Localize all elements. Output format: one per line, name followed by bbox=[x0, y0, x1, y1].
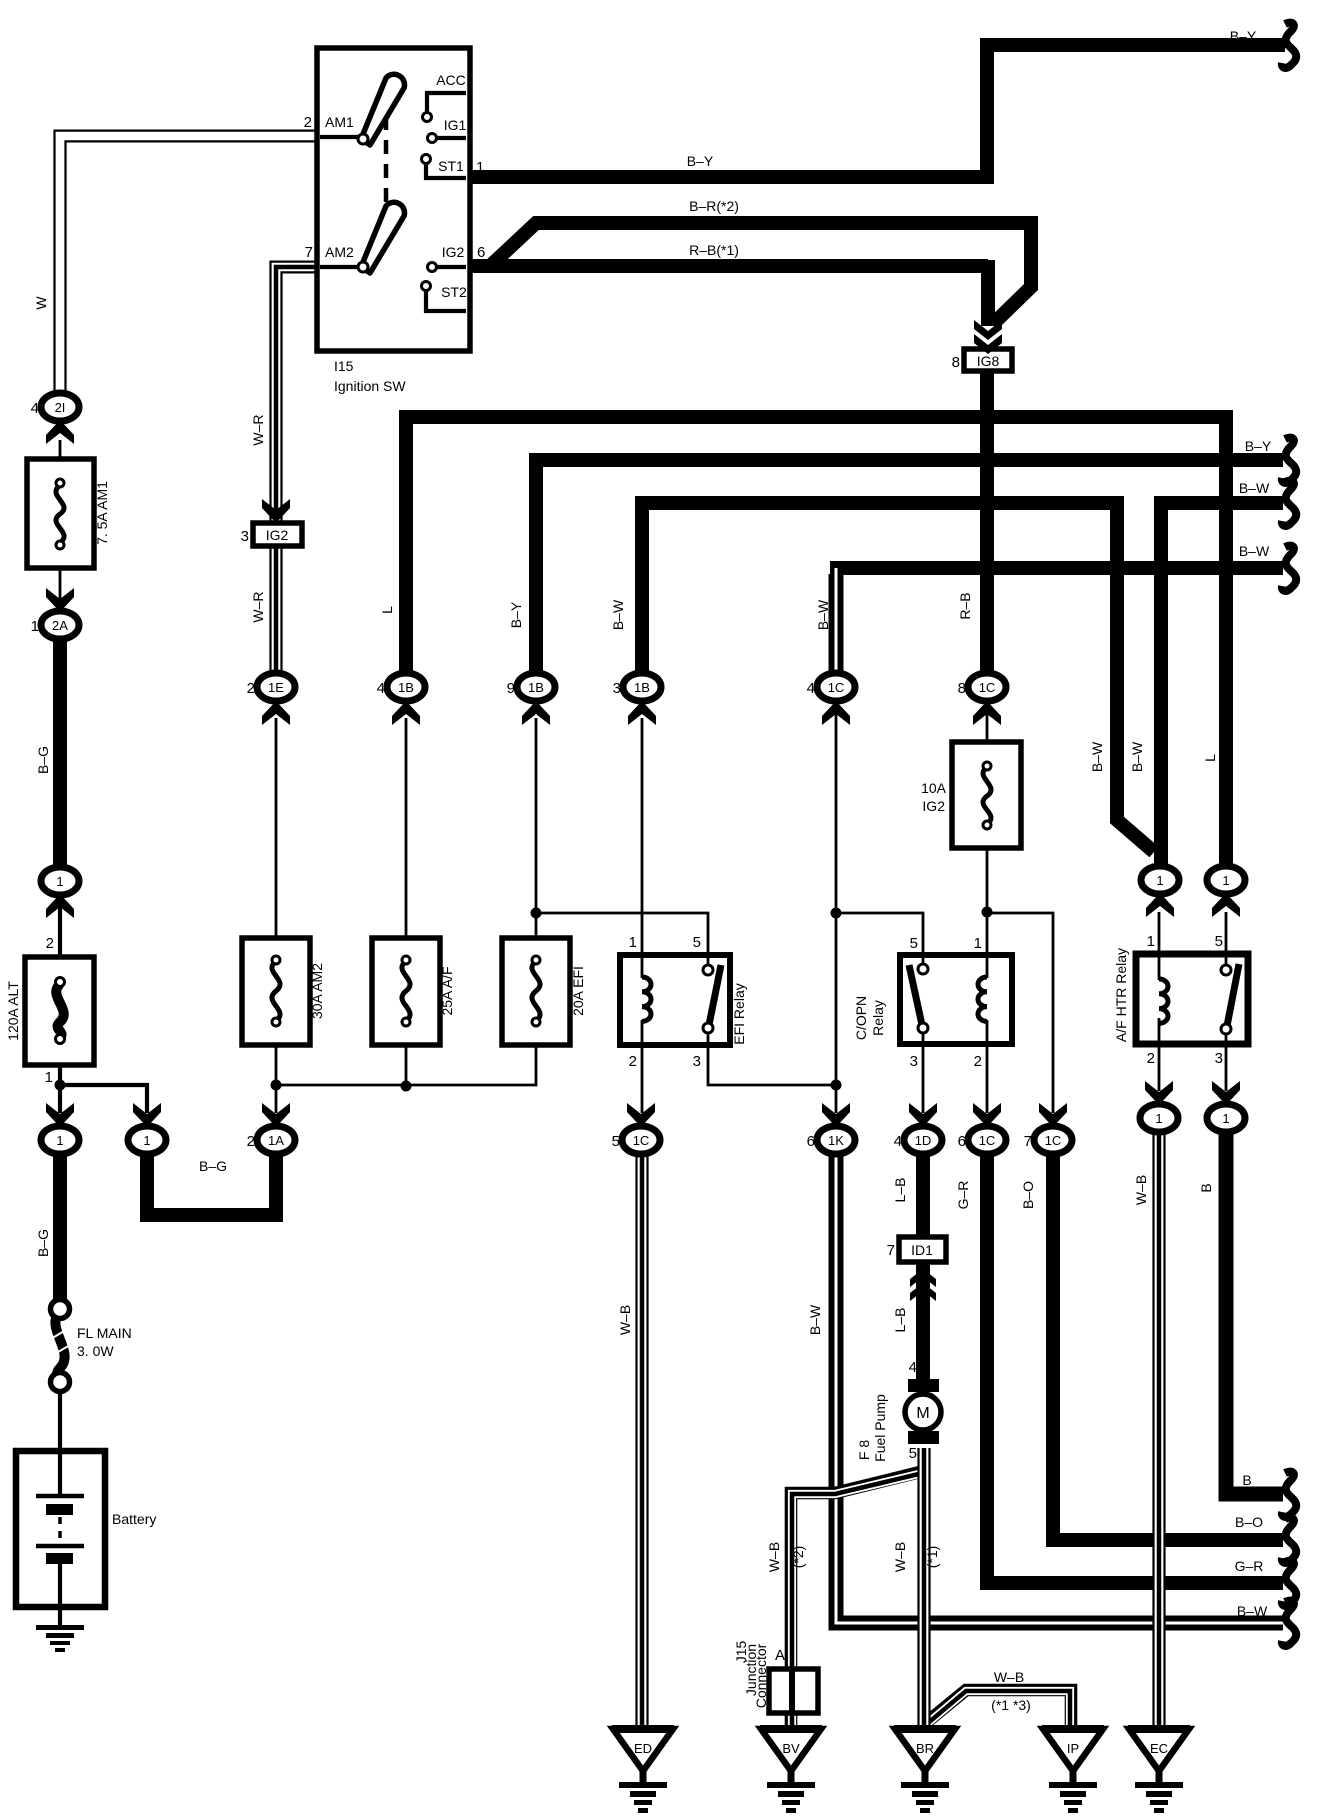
svg-text:B–G: B–G bbox=[35, 746, 51, 774]
thin wire 8(1C) to fuse 10A IG2 bbox=[986, 700, 989, 742]
svg-text:4: 4 bbox=[377, 680, 385, 697]
svg-text:L–B: L–B bbox=[892, 1308, 908, 1333]
svg-text:A/F HTR Relay: A/F HTR Relay bbox=[1113, 948, 1129, 1042]
connector 1 at (1226,1118) bbox=[1207, 1081, 1245, 1132]
wire W-B from A/F HTR pin2 connector to ground EC bbox=[1154, 1130, 1165, 1727]
page connector curl B-W bottom bbox=[1282, 1601, 1296, 1646]
svg-text:5: 5 bbox=[910, 935, 918, 952]
connector 7 1C at (1053,1140) bbox=[1024, 1103, 1072, 1154]
fuel pump F8 motor bbox=[856, 1359, 941, 1462]
double chevron arrow into ID1 bbox=[910, 1269, 936, 1301]
junction dot below 25A A/F bbox=[401, 1081, 412, 1092]
wire B-Y from ST1 pin 1 to top-right page connector bbox=[468, 45, 1285, 184]
svg-text:B–W: B–W bbox=[807, 1304, 823, 1335]
svg-text:7: 7 bbox=[305, 244, 313, 261]
svg-text:1: 1 bbox=[56, 874, 63, 889]
svg-text:1: 1 bbox=[45, 1069, 53, 1086]
page connector curl G-R bbox=[1282, 1561, 1296, 1606]
svg-text:2: 2 bbox=[46, 935, 54, 952]
double chevron arrow into IG8 bbox=[974, 320, 1002, 354]
svg-text:1: 1 bbox=[143, 1133, 150, 1148]
svg-text:3: 3 bbox=[1215, 1050, 1223, 1067]
svg-text:10A: 10A bbox=[921, 780, 947, 796]
svg-text:1A: 1A bbox=[268, 1133, 284, 1148]
page connector curl B-O bbox=[1282, 1518, 1296, 1563]
wire L bus from 4(1B) to A/F HTR relay pin5 column bbox=[406, 417, 1226, 867]
wire W-B from 5(1C) to ground ED bbox=[637, 1152, 648, 1727]
svg-text:3: 3 bbox=[613, 680, 621, 697]
svg-text:1: 1 bbox=[1155, 1111, 1162, 1126]
wire W-B(*1 *3) branch to ground IP bbox=[927, 1690, 1071, 1727]
svg-text:B–W: B–W bbox=[1237, 1603, 1268, 1619]
svg-text:W–B: W–B bbox=[1133, 1175, 1149, 1205]
svg-text:W: W bbox=[33, 296, 49, 310]
AM1 pivot contact bbox=[358, 134, 368, 144]
connector 4 1C at (836,687) bbox=[807, 673, 855, 725]
thin bus wire B-Y tap to EFI relay pin 5 bbox=[536, 913, 708, 966]
wire B-W striped vertical at connector 4(1C) bbox=[829, 568, 844, 672]
svg-text:W–B: W–B bbox=[766, 1542, 782, 1572]
thin wire 30A AM2 fuse to 2(1A) bbox=[275, 1042, 278, 1113]
svg-text:2: 2 bbox=[629, 1053, 637, 1070]
svg-text:ED: ED bbox=[634, 1741, 652, 1756]
wire B-W striped from 6(1K) to right page connector bbox=[836, 1150, 1283, 1623]
svg-text:IG8: IG8 bbox=[977, 353, 1000, 369]
wire W from battery node to AM1 (hollow double line) bbox=[55, 131, 318, 401]
connector 4 2I at (60,407) bbox=[31, 393, 79, 444]
connector 1 at (60,881) bbox=[41, 867, 79, 918]
svg-text:1B: 1B bbox=[398, 680, 414, 695]
svg-text:2: 2 bbox=[974, 1053, 982, 1070]
wire B from A/F HTR pin3 connector to right page connector bbox=[1226, 1128, 1283, 1494]
wire L-B from 4(1D) to ID1 bbox=[916, 1150, 930, 1240]
svg-text:A: A bbox=[775, 1647, 785, 1664]
svg-text:1: 1 bbox=[629, 934, 637, 951]
thin wire A/F HTR pin 2 output bbox=[1158, 1018, 1161, 1091]
svg-text:EFI Relay: EFI Relay bbox=[731, 983, 747, 1044]
svg-text:IP: IP bbox=[1067, 1741, 1079, 1756]
svg-text:5: 5 bbox=[1215, 933, 1223, 950]
svg-text:Relay: Relay bbox=[870, 1000, 886, 1036]
ground BV bbox=[760, 1725, 822, 1813]
svg-text:7: 7 bbox=[1024, 1133, 1032, 1150]
svg-text:G–R: G–R bbox=[1235, 1558, 1264, 1574]
connector 1 at (1226,880) bbox=[1207, 866, 1245, 917]
fuse 25A A/F bbox=[372, 938, 455, 1045]
connector 6 1C at (987,1140) bbox=[958, 1103, 1006, 1154]
thin wire A/F HTR pin 1 feed bbox=[1158, 912, 1161, 980]
svg-text:1C: 1C bbox=[979, 1133, 996, 1148]
svg-text:1K: 1K bbox=[828, 1133, 844, 1148]
AM2 contact line bbox=[320, 265, 358, 269]
ground EC bbox=[1128, 1725, 1190, 1813]
ST2 contact hook bbox=[426, 291, 466, 311]
svg-text:25A A/F: 25A A/F bbox=[439, 966, 455, 1015]
svg-text:BR: BR bbox=[916, 1741, 934, 1756]
svg-text:5: 5 bbox=[693, 934, 701, 951]
svg-text:(*1 *3): (*1 *3) bbox=[991, 1697, 1031, 1713]
svg-text:B–Y: B–Y bbox=[1230, 28, 1257, 44]
svg-text:2I: 2I bbox=[55, 400, 66, 415]
AM1 wiper arm bbox=[361, 74, 404, 145]
thin wire 4(1C) down to relay feed bus bbox=[835, 700, 838, 1113]
junction dot on 6(1K) column at EFI relay pin3 bus bbox=[831, 1080, 842, 1091]
svg-text:2: 2 bbox=[247, 1133, 255, 1150]
connector box IG8 bbox=[952, 349, 1012, 371]
svg-text:W–B: W–B bbox=[617, 1305, 633, 1335]
fuse 7.5A AM1 bbox=[27, 459, 110, 568]
connector box ID1 bbox=[887, 1237, 946, 1262]
svg-text:B–O: B–O bbox=[1020, 1181, 1036, 1209]
thin wire FL MAIN to battery bbox=[58, 1390, 62, 1456]
wire W-B(*1) fuel pump pin 5 to ground BR bbox=[919, 1448, 930, 1727]
svg-text:L: L bbox=[1202, 754, 1218, 762]
svg-text:5: 5 bbox=[909, 1445, 917, 1462]
svg-text:8: 8 bbox=[958, 680, 966, 697]
svg-text:IG2: IG2 bbox=[266, 527, 289, 543]
connector 1 at (1159,1118) bbox=[1140, 1081, 1178, 1132]
svg-text:3. 0W: 3. 0W bbox=[77, 1343, 114, 1359]
A/F HTR Relay box bbox=[1113, 933, 1248, 1067]
thin wire 9(1B) to fuse 20A EFI bbox=[535, 718, 538, 938]
ground ED bbox=[612, 1725, 674, 1813]
wire W-B(*2) fuel pump branch to J15 and ground BV bbox=[791, 1471, 923, 1727]
svg-text:Battery: Battery bbox=[112, 1511, 156, 1527]
wire B-W bus from 3(1B) jog to A/F HTR relay pin1 bbox=[642, 503, 1154, 852]
thin bus wire 10A IG2 output to 7(1C) column bbox=[987, 913, 1053, 1113]
svg-text:F 8: F 8 bbox=[856, 1440, 872, 1460]
svg-text:30A AM2: 30A AM2 bbox=[309, 963, 325, 1019]
wire W-R from AM2 through IG2 connector to 1E bbox=[271, 262, 318, 672]
svg-text:4: 4 bbox=[894, 1133, 902, 1150]
svg-text:1: 1 bbox=[1156, 873, 1163, 888]
svg-text:2: 2 bbox=[247, 680, 255, 697]
svg-text:W–R: W–R bbox=[250, 414, 266, 445]
svg-text:8: 8 bbox=[952, 354, 960, 371]
svg-text:B–O: B–O bbox=[1235, 1514, 1263, 1530]
svg-text:20A EFI: 20A EFI bbox=[570, 966, 586, 1016]
wire R-B(*1) from IG2 pin 6 to IG8 connector bbox=[468, 260, 988, 326]
svg-text:Fuel Pump: Fuel Pump bbox=[872, 1394, 888, 1462]
connector 4 1B at (406,687) bbox=[377, 673, 425, 725]
svg-text:2A: 2A bbox=[52, 618, 68, 633]
wire G-R from 6(1C) to right page connector bbox=[987, 1150, 1283, 1583]
thin wire 4(1B) to fuse 25A A/F bbox=[405, 718, 408, 938]
svg-text:6: 6 bbox=[958, 1133, 966, 1150]
AM2 pivot contact bbox=[358, 262, 368, 272]
svg-text:1E: 1E bbox=[268, 680, 284, 695]
connector box IG2 bbox=[241, 523, 302, 546]
connector 2 1A at (276,1140) bbox=[247, 1103, 295, 1154]
connector 1 2A at (60,625) bbox=[31, 588, 79, 639]
svg-text:B–W: B–W bbox=[610, 599, 626, 630]
svg-text:(*2): (*2) bbox=[790, 1546, 806, 1569]
svg-text:4: 4 bbox=[909, 1359, 917, 1376]
thin wire EFI relay pin 3 to 6(1K) column bbox=[708, 1032, 836, 1085]
svg-text:7. 5A AM1: 7. 5A AM1 bbox=[94, 481, 110, 545]
svg-text:IG1: IG1 bbox=[444, 117, 467, 133]
fuse 10A IG2 bbox=[921, 742, 1021, 848]
svg-text:G–R: G–R bbox=[955, 1181, 971, 1210]
thin wire 2I to fuse 7.5A AM1 bbox=[59, 440, 62, 462]
svg-text:M: M bbox=[916, 1405, 929, 1422]
svg-text:1D: 1D bbox=[915, 1133, 932, 1148]
thin wire C/OPN relay pin 3 to 4(1D) bbox=[922, 1032, 925, 1113]
page connector curl B bbox=[1282, 1472, 1296, 1517]
page connector curl B-W lower bbox=[1282, 546, 1296, 591]
svg-text:EC: EC bbox=[1150, 1741, 1168, 1756]
svg-text:B–G: B–G bbox=[199, 1158, 227, 1174]
svg-text:W–B: W–B bbox=[994, 1669, 1024, 1685]
svg-text:6: 6 bbox=[807, 1133, 815, 1150]
connector 6 1K at (836,1140) bbox=[807, 1103, 855, 1154]
ignition switch labels bbox=[304, 72, 486, 394]
fusible link FL MAIN 3.0W bbox=[49, 1300, 132, 1392]
svg-text:R–B: R–B bbox=[957, 592, 973, 619]
thin wire fuse 10A IG2 to C/OPN coil pin 1 bbox=[986, 848, 989, 978]
wire B-G from node 1 down to FL MAIN bbox=[53, 1147, 67, 1302]
svg-text:5: 5 bbox=[612, 1133, 620, 1150]
C/OPN Relay box bbox=[853, 935, 1012, 1070]
junction dot on 4(1C) column at relay bus bbox=[831, 908, 842, 919]
svg-text:B–W: B–W bbox=[1129, 741, 1145, 772]
svg-text:3: 3 bbox=[693, 1053, 701, 1070]
svg-text:B–W: B–W bbox=[1089, 741, 1105, 772]
thin wire node 1 to 120A ALT bbox=[58, 896, 62, 957]
thin wire A/F HTR pin 5 feed bbox=[1225, 912, 1228, 968]
svg-text:B–W: B–W bbox=[815, 599, 831, 630]
svg-text:B–Y: B–Y bbox=[508, 601, 524, 628]
AM2 wiper arm bbox=[361, 202, 404, 273]
svg-text:W–B: W–B bbox=[892, 1542, 908, 1572]
battery box bbox=[16, 1451, 156, 1607]
wire B-Y bus from 9(1B) to right page connector bbox=[536, 460, 1283, 680]
thin bus wire 4(1C) column to C/OPN relay pin 5 bbox=[836, 913, 923, 966]
wire B-W from right page connector to A/F HTR pin1 column bbox=[1161, 503, 1283, 867]
svg-text:I15: I15 bbox=[334, 358, 354, 374]
svg-text:BV: BV bbox=[782, 1741, 800, 1756]
svg-text:6: 6 bbox=[477, 244, 485, 261]
svg-text:(*1): (*1) bbox=[924, 1546, 940, 1569]
battery ground symbol bbox=[36, 1625, 84, 1652]
thin bus wire fuse bottoms 30A AM2 to 20A EFI bbox=[276, 1042, 536, 1085]
IG1 contact bbox=[436, 136, 466, 140]
ST1 contact hook bbox=[426, 164, 466, 178]
fuse 30A AM2 bbox=[242, 938, 325, 1045]
wire B-R(*2) from IG2 via diagonal to IG8 bbox=[489, 223, 1031, 324]
thin wire 3(1B) to EFI relay pin 1 bbox=[641, 718, 644, 978]
connector 2 1E at (276,687) bbox=[247, 673, 295, 725]
IG2 contact bbox=[436, 265, 466, 269]
wire L-B from ID1 to fuel pump pin 4 bbox=[916, 1260, 930, 1380]
svg-text:R–B(*1): R–B(*1) bbox=[689, 242, 739, 258]
junction dot at 120A ALT output bbox=[55, 1080, 66, 1091]
fuse 120A ALT bbox=[5, 935, 94, 1086]
svg-text:1C: 1C bbox=[828, 680, 845, 695]
wire B-W bus from 4(1C) to right page connector bbox=[830, 561, 1283, 575]
svg-text:IG2: IG2 bbox=[922, 798, 945, 814]
svg-text:B–Y: B–Y bbox=[687, 153, 714, 169]
thin wire 120A ALT to node 1 junction bbox=[58, 1065, 62, 1113]
thin wire junction branch to right connector 1 bbox=[60, 1085, 147, 1113]
svg-text:L: L bbox=[379, 606, 395, 614]
svg-text:IG2: IG2 bbox=[442, 244, 465, 260]
svg-text:1: 1 bbox=[1222, 873, 1229, 888]
svg-text:1: 1 bbox=[974, 935, 982, 952]
svg-text:1B: 1B bbox=[634, 680, 650, 695]
svg-text:4: 4 bbox=[807, 680, 815, 697]
svg-text:3: 3 bbox=[241, 528, 249, 545]
junction dot below 30A AM2 bbox=[271, 1080, 282, 1091]
connector 5 1C at (641,1140) bbox=[612, 1103, 660, 1154]
ground BR bbox=[894, 1725, 956, 1813]
thin wire 1E to fuse 30A AM2 bbox=[275, 718, 278, 938]
thin wire EFI relay pin 2 to 5(1C) bbox=[641, 1020, 644, 1113]
fuse 20A EFI bbox=[502, 938, 586, 1045]
thin wire 25A A/F fuse bottom bbox=[405, 1042, 408, 1086]
connector 1 at (1160,880) bbox=[1141, 866, 1179, 917]
svg-text:AM2: AM2 bbox=[325, 244, 354, 260]
junction dot on 9(1B) column bbox=[531, 908, 542, 919]
svg-text:1: 1 bbox=[1147, 933, 1155, 950]
connector 3 1B at (642,687) bbox=[613, 673, 661, 725]
svg-text:9: 9 bbox=[507, 680, 515, 697]
svg-text:1B: 1B bbox=[528, 680, 544, 695]
svg-text:AM1: AM1 bbox=[325, 114, 354, 130]
connector 1 at (60,1140) bbox=[41, 1103, 79, 1154]
svg-text:B–W: B–W bbox=[1239, 543, 1270, 559]
svg-text:B: B bbox=[1242, 1472, 1251, 1488]
connector 9 1B at (536,687) bbox=[507, 673, 555, 725]
thin wire A/F HTR pin 3 output bbox=[1225, 1033, 1228, 1091]
svg-text:1: 1 bbox=[1222, 1111, 1229, 1126]
ground IP bbox=[1042, 1725, 1104, 1813]
svg-text:FL MAIN: FL MAIN bbox=[77, 1325, 132, 1341]
page connector curl B-W upper bbox=[1282, 481, 1296, 526]
svg-text:B–W: B–W bbox=[1239, 480, 1270, 496]
ignition switch I15 box bbox=[317, 48, 470, 351]
svg-text:2: 2 bbox=[304, 114, 312, 131]
mechanical link dashed line bbox=[384, 116, 389, 210]
thin wire fuse 7.5A AM1 to 2A bbox=[59, 566, 62, 613]
svg-text:1C: 1C bbox=[979, 680, 996, 695]
svg-text:7: 7 bbox=[887, 1242, 895, 1259]
page connector curl B-Y top right bbox=[1282, 23, 1296, 68]
connector 8 1C at (987,687) bbox=[958, 673, 1006, 725]
EFI Relay box bbox=[620, 934, 747, 1070]
svg-text:1: 1 bbox=[31, 618, 39, 635]
svg-text:4: 4 bbox=[31, 400, 39, 417]
svg-text:ACC: ACC bbox=[436, 72, 466, 88]
svg-text:Connector: Connector bbox=[753, 1643, 769, 1708]
svg-text:3: 3 bbox=[910, 1053, 918, 1070]
svg-text:120A ALT: 120A ALT bbox=[5, 981, 21, 1041]
wire B-G from node 1 branch to connector 2(1A) bbox=[147, 1147, 276, 1215]
svg-text:B–G: B–G bbox=[35, 1229, 51, 1257]
svg-text:ID1: ID1 bbox=[911, 1242, 933, 1258]
svg-text:B: B bbox=[1198, 1183, 1214, 1192]
AM1 contact line bbox=[320, 135, 358, 139]
svg-text:ST2: ST2 bbox=[441, 284, 467, 300]
svg-text:1: 1 bbox=[56, 1133, 63, 1148]
svg-text:C/OPN: C/OPN bbox=[853, 996, 869, 1040]
connector 1 at (147,1140) bbox=[128, 1103, 166, 1154]
wire R-B from IG8 down to connector 8(1C) bbox=[980, 371, 994, 672]
thin wire battery to ground bbox=[58, 1560, 62, 1627]
svg-text:W–R: W–R bbox=[250, 591, 266, 622]
junction connector J15 bbox=[733, 1641, 818, 1713]
svg-text:1: 1 bbox=[476, 159, 484, 176]
svg-text:ST1: ST1 bbox=[438, 158, 464, 174]
connector 4 1D at (923,1140) bbox=[894, 1103, 942, 1154]
svg-text:B–R(*2): B–R(*2) bbox=[689, 198, 739, 214]
page connector curl B-Y bbox=[1282, 438, 1296, 483]
ACC contact hook bbox=[427, 93, 466, 112]
junction dot on 10A IG2 output bbox=[982, 907, 993, 918]
svg-text:B–Y: B–Y bbox=[1245, 438, 1272, 454]
svg-text:1C: 1C bbox=[633, 1133, 650, 1148]
arrow into IG2 connector box bbox=[262, 499, 290, 523]
wire B-G from connector 2A down to node 1 bbox=[53, 632, 67, 870]
wire B-O from 7(1C) to right page connector bbox=[1053, 1150, 1283, 1540]
svg-text:2: 2 bbox=[1147, 1050, 1155, 1067]
svg-text:Ignition SW: Ignition SW bbox=[334, 378, 406, 394]
thin wire C/OPN relay pin 2 to 6(1C) bbox=[986, 1020, 989, 1113]
svg-text:1C: 1C bbox=[1045, 1133, 1062, 1148]
svg-text:L–B: L–B bbox=[892, 1178, 908, 1203]
